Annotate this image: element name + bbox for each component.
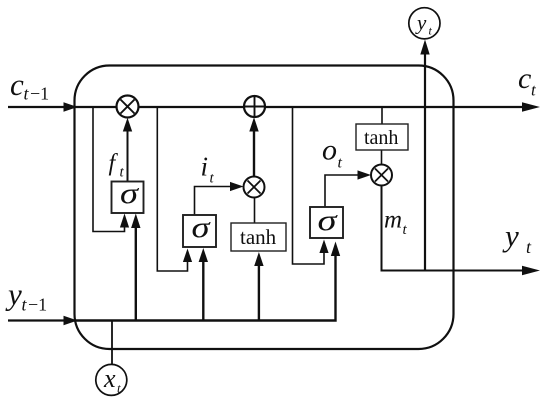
label o_t — [322, 134, 343, 172]
wire: stem from x_t circle to bus — [111, 321, 113, 365]
svg-text:f: f — [109, 151, 119, 177]
multiply node (forget gate) — [117, 96, 139, 118]
multiply node (output gate) — [371, 165, 392, 186]
wire: main cell-state horizontal line — [74, 106, 525, 108]
wire: sigma i output to input multiply node — [195, 187, 234, 216]
svg-text:y: y — [5, 277, 22, 312]
svg-text:−1: −1 — [28, 295, 47, 315]
svg-text:σ: σ — [120, 177, 139, 210]
wire: hang wire from cell line to sigma o — [293, 107, 325, 264]
label m_t — [384, 207, 408, 239]
wire: cell-state input line from c_{t-1} — [8, 106, 65, 108]
wire: hang wire from cell line to sigma i — [157, 107, 187, 271]
wire: sigma o output to output multiply node — [325, 175, 360, 207]
wire: riser from bus into sigma f — [135, 227, 137, 321]
sigma box f (forget gate) — [112, 177, 144, 213]
node x_t input circle — [96, 364, 127, 396]
svg-text:t: t — [526, 237, 532, 257]
wire: recurrent input line from y_{t-1} — [8, 319, 65, 321]
label y_t right — [502, 218, 532, 257]
svg-text:t: t — [210, 171, 215, 187]
svg-text:o: o — [322, 134, 337, 167]
svg-text:i: i — [201, 152, 209, 182]
svg-text:c: c — [518, 62, 531, 95]
tanh box g (input activation) — [231, 223, 286, 251]
svg-text:−1: −1 — [30, 84, 49, 104]
label c_{t-1} — [10, 67, 49, 104]
svg-text:σ: σ — [318, 204, 339, 237]
multiply node (input gate) — [244, 177, 265, 198]
svg-text:t: t — [22, 295, 28, 315]
svg-text:y: y — [502, 218, 519, 253]
svg-text:tanh: tanh — [240, 225, 277, 249]
svg-text:t: t — [117, 381, 121, 396]
LSTM cell body rounded rectangle — [75, 66, 454, 350]
label y_{t-1} — [5, 277, 47, 315]
svg-text:t: t — [531, 81, 537, 100]
wire: sigma f output up into multiply node — [127, 130, 129, 182]
wire: tanh g output up into input multiply node — [254, 198, 256, 224]
node y_t output circle top — [409, 8, 440, 39]
wire: cell line down into tanh m — [381, 107, 383, 124]
sigma box i (input gate) — [183, 211, 216, 247]
svg-text:t: t — [338, 155, 343, 172]
svg-text:t: t — [403, 222, 408, 238]
wire: riser from bus into tanh g — [258, 265, 260, 321]
wire: tanh m output down into output multiply node — [381, 150, 383, 165]
svg-text:t: t — [24, 84, 30, 104]
wire: m_t output line to y_t — [382, 186, 526, 271]
svg-text:σ: σ — [192, 211, 211, 244]
svg-text:c: c — [10, 67, 24, 102]
wire: input multiply output up into add node — [253, 131, 255, 177]
wire: hang wire from cell line to sigma f (left L-shape) — [93, 107, 125, 232]
label i_t — [201, 152, 215, 187]
svg-text:y: y — [415, 11, 427, 35]
svg-text:tanh: tanh — [364, 127, 398, 149]
svg-text:x: x — [103, 364, 116, 393]
tanh box m (output activation) — [356, 124, 408, 150]
sigma box o (output gate) — [310, 204, 343, 238]
wire: riser from bus into sigma i — [202, 261, 204, 321]
wire: vertical output to y_t circle on top — [424, 54, 426, 271]
wire: bottom input bus with turn up into sigma gate o — [74, 256, 336, 321]
label f_t — [109, 151, 125, 181]
svg-text:m: m — [384, 207, 402, 234]
add node — [244, 96, 265, 117]
label c_t — [518, 62, 537, 100]
